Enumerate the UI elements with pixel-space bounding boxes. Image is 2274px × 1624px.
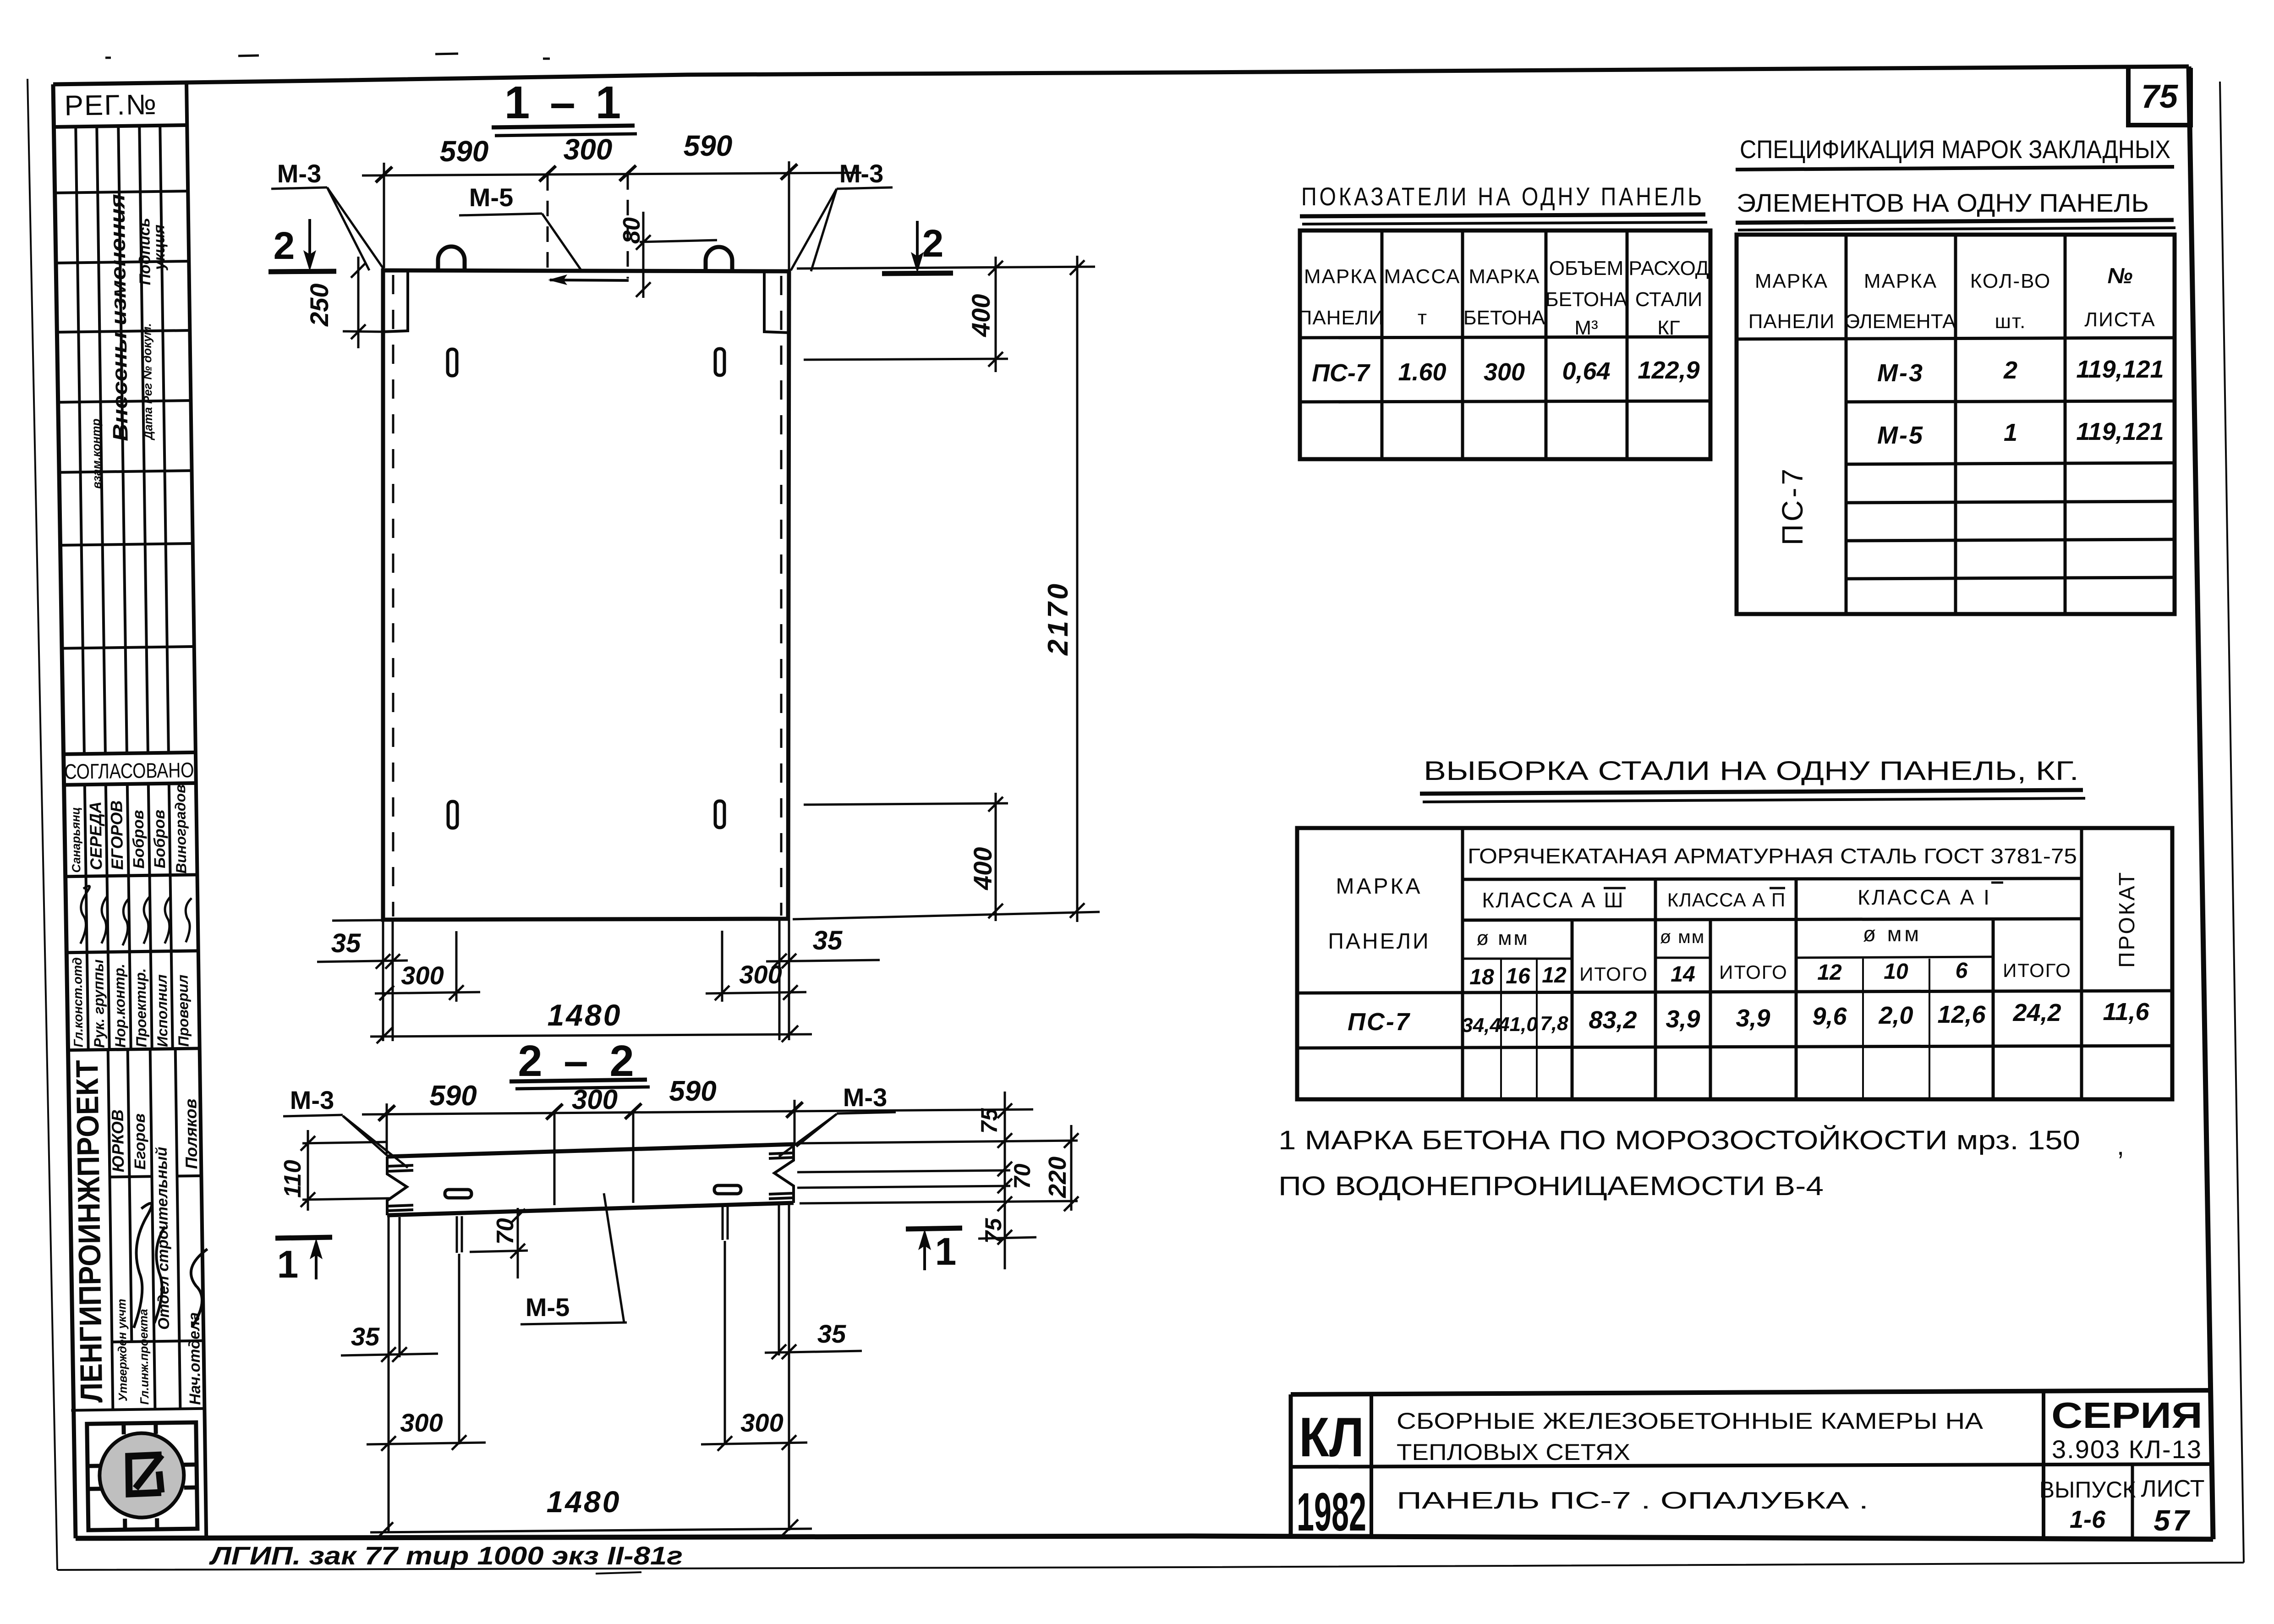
svg-text:ТЕПЛОВЫХ СЕТЯХ: ТЕПЛОВЫХ СЕТЯХ	[1397, 1439, 1630, 1465]
svg-text:СБОРНЫЕ ЖЕЛЕЗОБЕТОННЫЕ КАМЕР: СБОРНЫЕ ЖЕЛЕЗОБЕТОННЫЕ КАМЕРЫ НА	[1397, 1408, 1984, 1434]
sheet number box 75	[2128, 68, 2191, 125]
svg-text:ЛЕНГИПРОИНЖПРОЕКТ: ЛЕНГИПРОИНЖПРОЕКТ	[70, 1060, 109, 1403]
svg-text:41,0: 41,0	[1498, 1013, 1538, 1036]
svg-text:КОЛ-ВО: КОЛ-ВО	[1970, 270, 2051, 292]
svg-text:ИТОГО: ИТОГО	[1719, 961, 1788, 983]
svg-text:1 – 1: 1 – 1	[504, 77, 625, 128]
svg-text:2: 2	[922, 222, 944, 265]
svg-text:35: 35	[351, 1322, 380, 1351]
svg-text:Проверил: Проверил	[174, 975, 192, 1047]
svg-text:Внесены изменения: Внесены изменения	[105, 194, 132, 442]
svg-text:КЛАССА А I: КЛАССА А I	[1858, 885, 1991, 909]
svg-text:ПАНЕЛЬ ПС-7 . ОПАЛУБК: ПАНЕЛЬ ПС-7 . ОПАЛУБКА .	[1397, 1487, 1869, 1514]
svg-text:Санарьянц: Санарьянц	[68, 807, 83, 873]
slot hole top left	[448, 349, 457, 376]
svg-text:М-3: М-3	[290, 1086, 334, 1114]
svg-text:590: 590	[429, 1080, 477, 1112]
svg-text:1480: 1480	[547, 1485, 621, 1519]
svg-text:11,6: 11,6	[2103, 998, 2149, 1026]
left end keyed joint	[387, 1157, 413, 1215]
title block logo column divider	[1370, 1394, 1373, 1537]
bottom extension lines 2-2	[389, 1204, 789, 1533]
svg-text:Гл.конст.отд: Гл.конст.отд	[70, 957, 86, 1048]
title block row divider	[1291, 1464, 2212, 1467]
svg-text:Поляков: Поляков	[181, 1098, 201, 1169]
svg-text:400: 400	[968, 847, 997, 890]
svg-text:ОБЪЕМ: ОБЪЕМ	[1549, 257, 1623, 280]
sheet outer thin border bottom	[57, 1563, 2244, 1570]
svg-text:3,9: 3,9	[1666, 1005, 1700, 1033]
svg-text:шт.: шт.	[1995, 310, 2027, 333]
svg-text:18: 18	[1469, 965, 1494, 989]
svg-text:1480: 1480	[548, 998, 622, 1032]
steel table verticals	[1461, 828, 1464, 1099]
svg-text:Егоров: Егоров	[131, 1114, 149, 1170]
svg-text:110: 110	[279, 1160, 306, 1198]
svg-text:ЛИСТА: ЛИСТА	[2084, 308, 2156, 331]
svg-text:ПС-7: ПС-7	[1776, 466, 1809, 545]
svg-text:400: 400	[966, 294, 995, 337]
svg-text:220: 220	[1044, 1157, 1071, 1198]
svg-text:1: 1	[277, 1243, 299, 1286]
svg-text:СТАЛИ: СТАЛИ	[1635, 288, 1703, 311]
svg-text:3.903 КЛ-13: 3.903 КЛ-13	[2052, 1435, 2202, 1464]
svg-text:Исполнил: Исполнил	[153, 974, 170, 1047]
svg-text:т: т	[1418, 307, 1427, 329]
svg-text:КЛАССА А П: КЛАССА А П	[1667, 889, 1786, 911]
frame right border	[2189, 66, 2213, 1539]
svg-text:М-3: М-3	[843, 1083, 887, 1112]
svg-text:М³: М³	[1574, 317, 1598, 339]
slot hole 2-2 right	[714, 1185, 741, 1194]
svg-text:57: 57	[2153, 1504, 2192, 1537]
panel outline 1-1	[383, 270, 789, 920]
svg-text:1: 1	[2004, 419, 2017, 446]
institute block lines	[108, 1049, 181, 1410]
svg-text:СЕРИЯ: СЕРИЯ	[2051, 1395, 2203, 1436]
sheet outer thin border right	[2220, 82, 2244, 1563]
top dimension chain line	[362, 161, 861, 279]
svg-text:Бобров: Бобров	[130, 810, 148, 868]
svg-text:ПАНЕЛИ: ПАНЕЛИ	[1298, 307, 1384, 329]
svg-text:БЕТОНА: БЕТОНА	[1545, 288, 1627, 311]
lifting loop right	[706, 247, 732, 271]
frame left border / stamp strip left edge	[53, 84, 76, 1538]
svg-text:Гл.инж.проекта: Гл.инж.проекта	[136, 1309, 151, 1405]
svg-text:М-5: М-5	[526, 1293, 570, 1322]
changes grid column lines	[76, 126, 169, 754]
title block seriya column divider	[2042, 1392, 2045, 1538]
svg-text:300: 300	[400, 1408, 443, 1437]
panel bar outline 2-2	[387, 1144, 794, 1215]
approval signatures squiggles	[80, 884, 192, 946]
vypusk list divider	[2131, 1465, 2134, 1538]
institute logo box	[87, 1422, 197, 1530]
svg-text:Нор.контр.: Нор.контр.	[111, 964, 128, 1048]
left stamp strip (rotated slightly like the scan)	[53, 81, 211, 1538]
svg-text:Утвержден укчт: Утвержден укчт	[115, 1299, 130, 1401]
svg-text:,: ,	[2117, 1131, 2124, 1161]
svg-text:ЭЛЕМЕНТОВ НА ОДНУ ПАНЕЛЬ: ЭЛЕМЕНТОВ НА ОДНУ ПАНЕЛЬ	[1737, 188, 2149, 217]
scan dashes above top border	[105, 54, 550, 59]
svg-text:БЕТОНА: БЕТОНА	[1463, 307, 1545, 329]
svg-text:ИТОГО: ИТОГО	[2003, 960, 2071, 981]
svg-text:ø мм: ø мм	[1660, 927, 1705, 947]
svg-text:КЛ: КЛ	[1299, 1406, 1364, 1468]
svg-text:2,0: 2,0	[1878, 1002, 1913, 1029]
svg-text:МАРКА: МАРКА	[1755, 270, 1828, 292]
svg-text:№: №	[2107, 264, 2132, 288]
svg-text:СЕРЕДА: СЕРЕДА	[86, 801, 105, 871]
hidden edge dashed right	[780, 276, 783, 916]
svg-text:КГ: КГ	[1657, 317, 1680, 339]
svg-text:590: 590	[440, 135, 489, 168]
svg-text:Бобров: Бобров	[151, 810, 169, 868]
svg-text:ПРОКАТ: ПРОКАТ	[2115, 871, 2139, 968]
svg-text:12,6: 12,6	[1937, 1001, 1986, 1028]
svg-text:35: 35	[813, 926, 843, 955]
svg-text:МАССА: МАССА	[1384, 265, 1461, 288]
svg-text:МАРКА: МАРКА	[1304, 265, 1377, 288]
top right notch	[764, 271, 789, 333]
svg-text:300: 300	[740, 1408, 783, 1437]
slot hole top right	[715, 349, 724, 375]
svg-text:Отдел строительный: Отдел строительный	[153, 1147, 173, 1330]
svg-text:34,4: 34,4	[1462, 1014, 1501, 1037]
svg-text:7,8: 7,8	[1540, 1012, 1568, 1035]
svg-text:75: 75	[976, 1108, 1002, 1134]
svg-text:75: 75	[2141, 78, 2178, 115]
svg-text:взам.контр: взам.контр	[89, 418, 104, 489]
dimension ticks top chain	[376, 164, 797, 182]
svg-text:ВЫБОРКА СТАЛИ НА ОДНУ ПАНЕ: ВЫБОРКА СТАЛИ НА ОДНУ ПАНЕЛЬ, КГ.	[1424, 756, 2079, 786]
svg-text:2170: 2170	[1042, 581, 1074, 656]
svg-text:16: 16	[1506, 964, 1530, 988]
steel table horizontals	[1463, 878, 2082, 879]
svg-text:0,64: 0,64	[1562, 357, 1610, 385]
steel table frame	[1297, 828, 2172, 1099]
svg-text:1 МАРКА БЕТОНА ПО МОРОЗОС: 1 МАРКА БЕТОНА ПО МОРОЗОСТОЙКОСТИ мрз. 1…	[1278, 1125, 2080, 1155]
svg-text:83,2: 83,2	[1589, 1006, 1637, 1034]
institute signatures squiggles	[132, 1202, 208, 1328]
frame bottom border	[76, 1536, 2213, 1539]
svg-text:300: 300	[572, 1084, 618, 1115]
svg-text:ЛИСТ: ЛИСТ	[2141, 1476, 2204, 1502]
svg-text:МАРКА: МАРКА	[1336, 874, 1423, 899]
bottom extension lines 1-1	[332, 919, 789, 1041]
svg-text:СОГЛАСОВАНО: СОГЛАСОВАНО	[64, 758, 194, 784]
svg-text:М-5: М-5	[1877, 422, 1924, 449]
svg-text:Виноградов: Виноградов	[172, 785, 190, 874]
svg-text:ЮРКОВ: ЮРКОВ	[108, 1109, 127, 1173]
svg-text:12: 12	[1542, 963, 1567, 988]
svg-text:3,9: 3,9	[1736, 1004, 1770, 1032]
svg-text:ПО ВОДОНЕПРОНИЦАЕМОСТИ В-4: ПО ВОДОНЕПРОНИЦАЕМОСТИ В-4	[1278, 1171, 1824, 1201]
svg-text:250: 250	[305, 284, 334, 327]
lifting loop left	[438, 247, 465, 270]
svg-text:2: 2	[2003, 357, 2017, 384]
svg-text:ø мм: ø мм	[1863, 922, 1922, 946]
anchor pin left below bar	[457, 1216, 462, 1253]
svg-text:2: 2	[274, 224, 295, 267]
embedded plate M-5 under top edge	[550, 280, 629, 280]
signature table lines	[64, 875, 200, 1050]
top left notch	[383, 271, 408, 332]
svg-text:Нач.отдела: Нач.отдела	[186, 1312, 204, 1405]
svg-text:9,6: 9,6	[1812, 1003, 1847, 1030]
svg-text:6: 6	[1956, 959, 1968, 983]
inner joints of middle strip	[554, 1144, 633, 1205]
frame top border	[53, 66, 2189, 84]
svg-text:М-3: М-3	[277, 159, 321, 188]
svg-text:ø мм: ø мм	[1476, 927, 1529, 949]
top dimension chain 2-2	[362, 1100, 1033, 1188]
svg-text:119,121: 119,121	[2076, 418, 2164, 445]
svg-text:12: 12	[1817, 960, 1842, 985]
svg-text:1.60: 1.60	[1398, 358, 1446, 386]
svg-text:300: 300	[401, 961, 444, 990]
strip right edge	[186, 81, 206, 1536]
svg-text:1982: 1982	[1297, 1482, 1366, 1542]
dim chain 75/70/75 right	[997, 1092, 1012, 1269]
svg-text:590: 590	[684, 129, 733, 162]
svg-text:75: 75	[981, 1218, 1006, 1244]
svg-text:КЛАССА А Ш: КЛАССА А Ш	[1482, 888, 1624, 912]
svg-text:35: 35	[817, 1319, 846, 1348]
svg-text:ИТОГО: ИТОГО	[1579, 963, 1648, 985]
slot hole 2-2 left	[445, 1190, 471, 1198]
svg-text:70: 70	[492, 1218, 519, 1245]
anchor pin right below bar	[723, 1203, 728, 1240]
svg-text:Проектир.: Проектир.	[132, 968, 149, 1048]
svg-text:300: 300	[739, 960, 782, 989]
svg-text:ЕГОРОВ: ЕГОРОВ	[107, 800, 126, 870]
svg-text:Рук. группы: Рук. группы	[90, 959, 108, 1048]
svg-text:590: 590	[669, 1075, 716, 1107]
svg-text:ПАНЕЛИ: ПАНЕЛИ	[1328, 929, 1430, 954]
hidden edge dashed left	[392, 275, 395, 916]
svg-text:14: 14	[1671, 962, 1695, 987]
svg-text:ГОРЯЧЕКАТАНАЯ АРМАТУРНАЯ СТА: ГОРЯЧЕКАТАНАЯ АРМАТУРНАЯ СТАЛЬ ГОСТ 3781…	[1468, 844, 2077, 868]
svg-text:ВЫПУСК: ВЫПУСК	[2039, 1477, 2136, 1503]
svg-text:укция: укция	[150, 225, 168, 271]
dim 220 overall right	[1064, 1125, 1079, 1211]
svg-text:МАРКА: МАРКА	[1864, 270, 1937, 292]
svg-text:ЭЛЕМЕНТА: ЭЛЕМЕНТА	[1846, 310, 1956, 333]
svg-text:10: 10	[1884, 960, 1908, 984]
right side extension lines 2-2	[797, 1141, 1078, 1239]
table frame specifikacia	[1737, 235, 2175, 614]
svg-text:80: 80	[619, 217, 645, 244]
svg-text:122,9: 122,9	[1638, 357, 1699, 384]
svg-text:35: 35	[331, 928, 361, 958]
svg-text:ЛГИП. зак 77 тир 1000 экз I: ЛГИП. зак 77 тир 1000 экз II-81г	[208, 1541, 683, 1570]
svg-text:300: 300	[564, 133, 613, 166]
title block outer frame	[1291, 1390, 2212, 1394]
svg-text:М-5: М-5	[469, 183, 513, 212]
svg-text:МАРКА: МАРКА	[1469, 265, 1540, 288]
svg-text:М-3: М-3	[839, 159, 883, 188]
reg box bottom line	[54, 125, 187, 127]
svg-text:М-3: М-3	[1877, 359, 1924, 387]
svg-text:ПОКАЗАТЕЛИ НА ОДНУ ПАНЕЛЬ: ПОКАЗАТЕЛИ НА ОДНУ ПАНЕЛЬ	[1301, 182, 1704, 211]
svg-text:РАСХОД: РАСХОД	[1628, 257, 1709, 280]
svg-text:1: 1	[935, 1230, 957, 1273]
right end keyed joint	[769, 1144, 794, 1203]
svg-text:СПЕЦИФИКАЦИЯ МАРОК ЗАКЛАДНЫХ: СПЕЦИФИКАЦИЯ МАРОК ЗАКЛАДНЫХ	[1740, 135, 2170, 164]
slot hole bottom right	[715, 801, 724, 828]
svg-text:70: 70	[1009, 1163, 1035, 1189]
svg-text:1-6: 1-6	[2070, 1506, 2106, 1533]
soglasovano band lines	[62, 752, 196, 785]
svg-text:Дата Рег № докум.: Дата Рег № докум.	[140, 323, 155, 440]
sheet outer thin border left	[27, 79, 57, 1570]
svg-text:300: 300	[1484, 358, 1525, 386]
svg-text:ПС-7: ПС-7	[1348, 1008, 1411, 1036]
svg-text:РЕГ.№: РЕГ.№	[64, 89, 157, 122]
svg-text:119,121: 119,121	[2076, 356, 2164, 383]
changes grid horizontal lines	[55, 191, 194, 648]
svg-text:24,2: 24,2	[2012, 999, 2061, 1026]
slot hole bottom left	[448, 801, 457, 828]
svg-text:ПС-7: ПС-7	[1312, 359, 1371, 387]
svg-text:ПАНЕЛИ: ПАНЕЛИ	[1748, 310, 1835, 333]
table frame pokazateli	[1300, 230, 1710, 459]
